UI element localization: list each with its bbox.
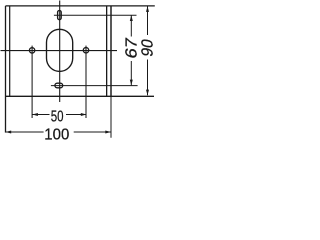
horizontal centerline: [1, 50, 118, 52]
bottom slot extension line (67): [51, 85, 138, 87]
inner right flange line: [106, 6, 108, 96]
top slot: [58, 11, 62, 20]
dim line 90: [147, 6, 149, 35]
big obround knockout: [47, 29, 73, 71]
plate bottom edge (also 90 extension): [6, 95, 155, 97]
svg-text:67: 67: [122, 36, 140, 60]
svg-text:50: 50: [51, 109, 64, 126]
dim line 100: [6, 131, 44, 133]
right hole: [83, 48, 88, 53]
dim line 67: [130, 15, 132, 36]
left hole: [29, 48, 34, 53]
inner left flange line: [9, 6, 11, 96]
arrow 100 left: [6, 131, 12, 134]
arrow 90 down: [146, 90, 149, 96]
plate left edge + 100 extension: [5, 6, 7, 133]
dim line 50: [32, 114, 49, 116]
top slot extension line (67): [54, 14, 137, 16]
plate right edge: [110, 6, 112, 96]
arrow 67 down: [130, 80, 133, 86]
right hole vertical mark + 50 extension: [85, 46, 87, 118]
arrow 50 right: [81, 113, 87, 116]
arrow 67 up: [130, 15, 133, 21]
arrow 100 right: [105, 131, 111, 134]
svg-text:100: 100: [44, 127, 69, 144]
bottom slot: [55, 83, 63, 88]
left hole vertical mark + 50 extension: [31, 46, 33, 118]
svg-text:90: 90: [139, 38, 157, 59]
arrow 90 up: [146, 6, 149, 12]
vertical centerline: [59, 1, 61, 103]
plate top edge (also 90 extension): [6, 5, 155, 7]
arrow 50 left: [32, 113, 38, 116]
right 100 extension: [110, 96, 112, 137]
